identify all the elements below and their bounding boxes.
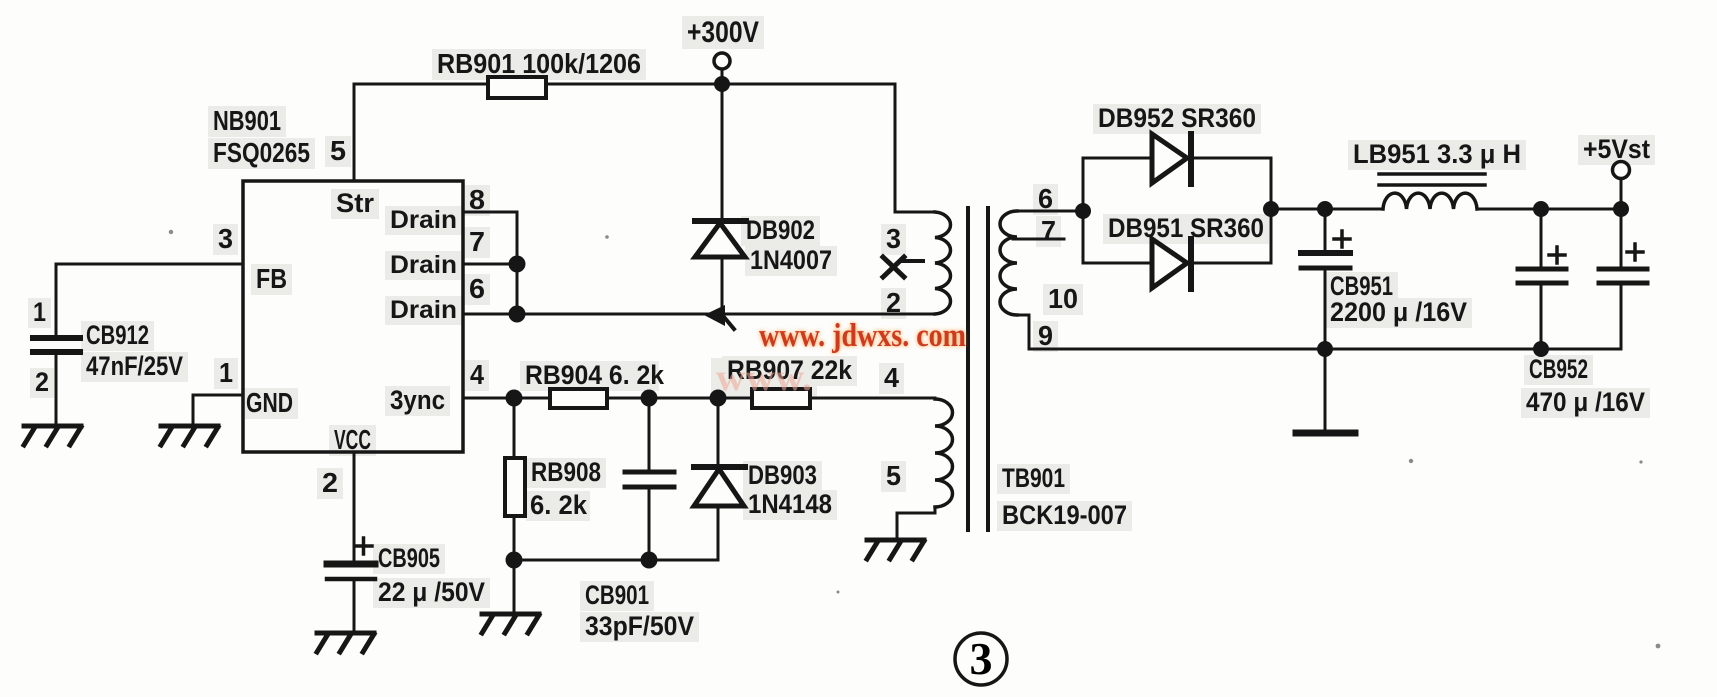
- ground under GND pin: [161, 426, 218, 445]
- svg-text:22 μ /50V: 22 μ /50V: [378, 577, 485, 607]
- svg-text:DB903: DB903: [748, 460, 817, 490]
- transformer aux winding pins 4-5: [935, 399, 953, 507]
- plus sign output cap: [1627, 244, 1643, 260]
- svg-text:9: 9: [1038, 320, 1053, 351]
- svg-text:2: 2: [886, 287, 901, 318]
- svg-text:VCC: VCC: [334, 424, 371, 455]
- scan specks: [169, 230, 1661, 649]
- wire top rail from pin5 to right corner: [354, 83, 895, 86]
- svg-text:www. jdwxs. com: www. jdwxs. com: [759, 318, 966, 354]
- svg-text:www.: www.: [716, 357, 812, 399]
- junction bottom CB901: [641, 552, 658, 569]
- junction +300V: [714, 76, 730, 92]
- capacitor CB905 lead bottom: [353, 580, 356, 632]
- circled number 3: [955, 633, 1007, 685]
- wire drain to transformer pin2: [517, 313, 935, 316]
- wire pin 5 Str: [353, 84, 356, 181]
- svg-text:TB901: TB901: [1002, 463, 1065, 493]
- junction drain6: [509, 306, 526, 323]
- capacitor CB905 plates: [327, 561, 375, 568]
- svg-text:33pF/50V: 33pF/50V: [585, 611, 694, 641]
- junction CB951 bottom: [1317, 341, 1333, 357]
- junction sync DB903: [710, 390, 727, 407]
- svg-text:NB901: NB901: [213, 105, 281, 136]
- svg-text:2: 2: [322, 467, 338, 498]
- wire drain bus vertical: [516, 212, 519, 314]
- diode DB951: [1152, 239, 1187, 288]
- junction CB952 bottom: [1533, 341, 1549, 357]
- junction CB951 top: [1317, 201, 1333, 217]
- svg-text:1: 1: [219, 357, 233, 388]
- ground under CB912: [24, 426, 81, 445]
- capacitor CB912 lead bottom: [55, 352, 58, 426]
- ground under RB908: [482, 614, 539, 633]
- svg-text:2200 μ /16V: 2200 μ /16V: [1330, 297, 1467, 327]
- wire pin6: [1017, 210, 1083, 213]
- svg-text:8: 8: [469, 184, 485, 215]
- svg-text:6: 6: [1038, 183, 1053, 214]
- svg-text:1N4007: 1N4007: [750, 245, 832, 275]
- wire CB951 ground lead: [1324, 349, 1327, 431]
- junction sync CB901: [641, 390, 658, 407]
- capacitor CB901: [648, 398, 651, 470]
- svg-text:DB902: DB902: [746, 215, 815, 245]
- wire bottom sync return: [514, 559, 718, 562]
- op-amp U NB901 IC box: [243, 181, 463, 452]
- svg-text:Drain: Drain: [390, 296, 457, 324]
- inductor LB951 coil: [1383, 193, 1477, 209]
- svg-text:10: 10: [1048, 283, 1078, 314]
- wire VCC: [353, 452, 356, 563]
- transformer primary winding pins 3-2: [935, 212, 950, 314]
- svg-text:3: 3: [218, 223, 233, 254]
- svg-text:4: 4: [884, 362, 899, 393]
- svg-text:Drain: Drain: [390, 206, 457, 234]
- svg-text:6: 6: [469, 273, 485, 304]
- wire bottom rail: [1029, 348, 1621, 351]
- wire rectifier box right: [1270, 158, 1273, 263]
- wire after inductor: [1477, 208, 1621, 211]
- node +300V terminal: [714, 53, 730, 69]
- wire output rail: [1271, 208, 1383, 211]
- resistor RB904: [550, 389, 607, 408]
- svg-text:Drain: Drain: [390, 251, 457, 279]
- svg-text:3: 3: [886, 223, 901, 254]
- svg-text:47nF/25V: 47nF/25V: [86, 351, 183, 381]
- svg-text:DB952 SR360: DB952 SR360: [1098, 103, 1256, 133]
- wire pin5 to ground: [897, 507, 935, 539]
- junction CB952 top: [1533, 201, 1549, 217]
- tap pin7 stub: [1013, 238, 1064, 241]
- svg-text:CB901: CB901: [585, 580, 649, 610]
- svg-text:FSQ0265: FSQ0265: [213, 137, 310, 168]
- capacitor output cap: [1620, 209, 1623, 267]
- svg-text:1: 1: [33, 297, 46, 327]
- plus sign CB952: [1549, 247, 1565, 263]
- svg-text:RB904 6. 2k: RB904 6. 2k: [525, 360, 665, 390]
- tap X no-connect pin3: [883, 257, 923, 277]
- svg-text:CB912: CB912: [86, 320, 149, 350]
- arrowhead on drain wire: [704, 305, 725, 326]
- junction +5Vst rail: [1613, 201, 1629, 217]
- junction sync RB908: [506, 390, 523, 407]
- svg-text:470 μ /16V: 470 μ /16V: [1526, 387, 1645, 417]
- wire sync rail: [463, 397, 935, 400]
- svg-text:2: 2: [35, 367, 49, 397]
- junction rectifier left: [1075, 203, 1091, 219]
- svg-text:3ync: 3ync: [390, 385, 445, 415]
- svg-text:7: 7: [469, 226, 485, 257]
- inductor LB951 core: [1379, 172, 1485, 176]
- svg-text:6. 2k: 6. 2k: [530, 490, 588, 520]
- junction rectifier right: [1263, 201, 1279, 217]
- svg-text:+5Vst: +5Vst: [1583, 134, 1650, 164]
- svg-text:BCK19-007: BCK19-007: [1002, 500, 1127, 530]
- ground bar CB951: [1296, 430, 1355, 437]
- diode DB903: [717, 398, 720, 468]
- svg-text:CB905: CB905: [378, 543, 440, 573]
- wire rectifier box left: [1082, 158, 1085, 263]
- svg-text:5: 5: [886, 460, 901, 491]
- svg-text:RB901 100k/1206: RB901 100k/1206: [437, 48, 641, 79]
- transformer secondary winding pins 6-9: [1000, 211, 1017, 315]
- svg-text:CB952: CB952: [1529, 354, 1588, 384]
- capacitor CB951: [1324, 209, 1327, 251]
- capacitor CB912 plates: [33, 335, 80, 341]
- svg-text:Str: Str: [336, 188, 374, 218]
- capacitor CB912 lead top: [55, 264, 58, 336]
- resistor RB907: [752, 389, 810, 408]
- wire ground lead RB908: [513, 560, 516, 614]
- svg-text:1N4148: 1N4148: [748, 489, 832, 519]
- svg-text:5: 5: [330, 135, 346, 166]
- junction bottom RB908: [506, 552, 523, 569]
- junction drain7: [509, 256, 526, 273]
- svg-text:LB951 3.3 μ H: LB951 3.3 μ H: [1353, 139, 1521, 169]
- capacitor CB952: [1540, 209, 1543, 267]
- transformer TB901 core: [966, 208, 970, 530]
- diode DB902: [721, 84, 724, 222]
- wire rectifier box bottom: [1083, 262, 1271, 265]
- wire GND pin: [193, 395, 243, 426]
- node +5Vst terminal: [1613, 162, 1630, 179]
- svg-text:GND: GND: [246, 387, 293, 418]
- svg-text:3: 3: [970, 633, 993, 684]
- svg-text:+300V: +300V: [687, 16, 759, 49]
- wire drain pin7: [463, 263, 517, 266]
- ground under pin5: [867, 540, 924, 559]
- svg-text:RB908: RB908: [531, 457, 601, 487]
- plus sign CB951: [1334, 231, 1350, 247]
- wire right drop to transformer primary top: [895, 84, 935, 212]
- svg-text:FB: FB: [256, 263, 287, 294]
- wire pin9 step: [1017, 315, 1029, 349]
- resistor RB901: [488, 77, 546, 98]
- wire drain pin8: [463, 211, 517, 214]
- wire FB: [56, 263, 243, 266]
- svg-text:DB951 SR360: DB951 SR360: [1108, 213, 1264, 243]
- svg-text:7: 7: [1041, 215, 1056, 246]
- resistor RB908: [513, 398, 516, 458]
- svg-text:4: 4: [470, 359, 484, 390]
- ground under CB905: [317, 633, 374, 652]
- diode DB952: [1152, 134, 1187, 183]
- wire terminal lead: [721, 69, 724, 84]
- wire drain pin6: [463, 313, 517, 316]
- wire rectifier box top: [1083, 157, 1271, 160]
- capacitor CB905 plus sign: [355, 538, 372, 554]
